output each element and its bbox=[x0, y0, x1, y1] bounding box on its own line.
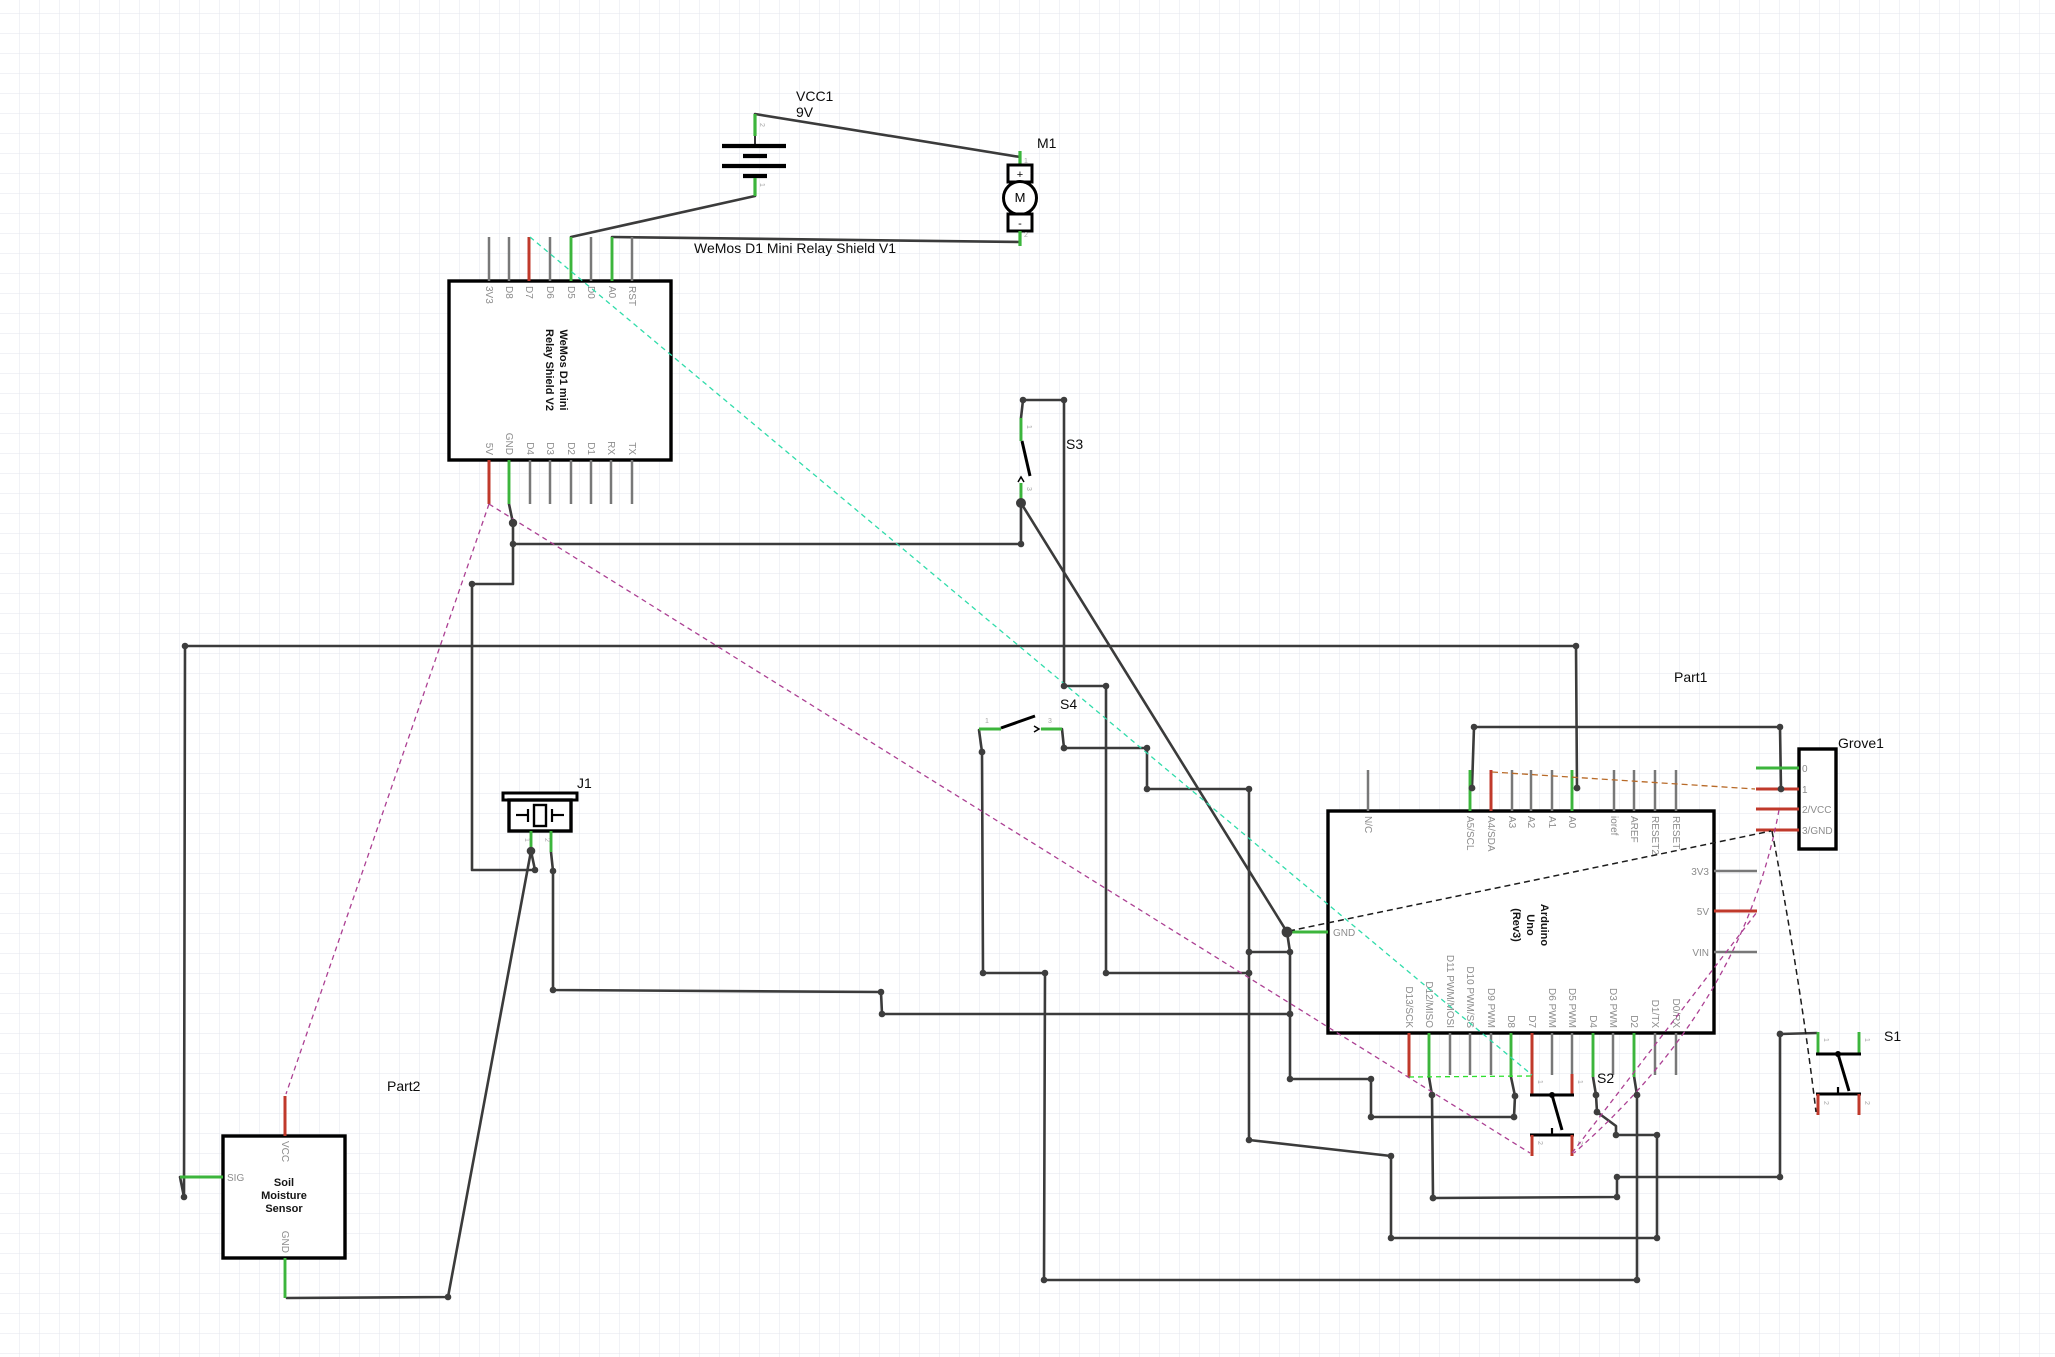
relay pin D2 bbox=[570, 460, 573, 504]
S2 pin 2a bbox=[1531, 1135, 1534, 1156]
svg-text:D3: D3 bbox=[544, 442, 555, 455]
Arduino title bbox=[1510, 904, 1550, 946]
svg-text:D3 PWM: D3 PWM bbox=[1607, 988, 1618, 1028]
S4 lever bbox=[1001, 716, 1035, 728]
junction corner 1147,748 bbox=[1144, 745, 1151, 752]
svg-text:A0: A0 bbox=[606, 286, 617, 299]
ratsnest green Arduino D13 to Arduino D7 bbox=[1409, 1076, 1532, 1077]
S3 pin 3 bbox=[1020, 483, 1023, 499]
svg-text:1: 1 bbox=[1802, 785, 1808, 796]
svg-text:1: 1 bbox=[985, 718, 989, 725]
ratsnest black Grove 3/GND to S1 pin2 bbox=[1772, 831, 1816, 1112]
svg-text:RESET2: RESET2 bbox=[1649, 816, 1660, 855]
switch S4 bbox=[979, 696, 1077, 732]
Arduino pin VIN bbox=[1714, 951, 1757, 954]
junction D8 bend bbox=[1512, 1093, 1519, 1100]
soil pin VCC bbox=[284, 1096, 287, 1136]
junction node 1249,952 bbox=[1246, 949, 1253, 956]
Arduino pin D2 bbox=[1633, 1033, 1636, 1077]
relay pin A0 bbox=[611, 237, 614, 281]
junction S3 pin3 node bbox=[1016, 498, 1026, 508]
wire junction to J1 pin1 bbox=[472, 544, 535, 870]
junction A5 wire corner bbox=[1471, 724, 1478, 731]
junction wire corner 472,584 bbox=[469, 581, 476, 588]
Arduino pin A5/SCL bbox=[1469, 770, 1472, 811]
svg-text:2: 2 bbox=[1863, 1101, 1870, 1105]
Arduino pin D3 bbox=[1612, 1033, 1615, 1075]
svg-text:Moisture: Moisture bbox=[261, 1190, 307, 1202]
Arduino pin D5 bbox=[1571, 1033, 1574, 1075]
ratsnest group bbox=[286, 237, 1816, 1153]
ratsnest cyan relay D7 to Arduino D7 bbox=[530, 237, 1532, 1075]
svg-text:S4: S4 bbox=[1060, 696, 1077, 712]
S1 pin 2b bbox=[1858, 1094, 1861, 1115]
relay pin D4 bbox=[529, 460, 532, 504]
S1 pin 2a bbox=[1817, 1094, 1820, 1115]
svg-text:Soil: Soil bbox=[274, 1177, 294, 1189]
svg-text:Grove1: Grove1 bbox=[1838, 735, 1884, 751]
junction J1 pin1 bbox=[527, 847, 536, 856]
junction corner 1290,1079 bbox=[1287, 1076, 1294, 1083]
relay pin D8 bbox=[508, 237, 511, 281]
soil pin GND bbox=[284, 1258, 287, 1298]
svg-text:TX: TX bbox=[626, 442, 637, 455]
ratsnest magenta S2 pin2b to Arduino 5V bbox=[1572, 912, 1757, 1153]
Arduino pin D10 bbox=[1469, 1033, 1472, 1075]
svg-text:M1: M1 bbox=[1037, 135, 1057, 151]
S2 pin 1b bbox=[1571, 1074, 1574, 1095]
svg-text:SIG: SIG bbox=[227, 1173, 244, 1184]
wire soil SIG to Arduino A0 bbox=[185, 646, 1577, 788]
junction A5 wire end bbox=[1469, 785, 1476, 792]
wires group bbox=[180, 114, 1817, 1298]
junction Grove wire corner bbox=[1777, 724, 1784, 731]
svg-text:S3: S3 bbox=[1066, 436, 1083, 452]
S4 pin 3 bbox=[1041, 728, 1062, 731]
svg-text:D8: D8 bbox=[1505, 1015, 1516, 1028]
junction corner 1147,789 bbox=[1144, 786, 1151, 793]
S4 contact arrow bbox=[1034, 726, 1039, 732]
junction soil GND corner bbox=[445, 1294, 452, 1301]
svg-text:A5/SCL: A5/SCL bbox=[1464, 816, 1475, 851]
relay title bbox=[543, 329, 569, 411]
svg-text:3/GND: 3/GND bbox=[1802, 826, 1833, 837]
Arduino pin D11 bbox=[1449, 1033, 1452, 1075]
J1 right lead bbox=[552, 814, 564, 816]
battery pin 1 (negative) bbox=[753, 178, 756, 196]
svg-text:5V: 5V bbox=[1697, 907, 1710, 918]
Arduino body bbox=[1328, 811, 1714, 1033]
relay pin D3 bbox=[549, 460, 552, 504]
svg-text:2: 2 bbox=[758, 123, 765, 127]
J1 pin 1 bbox=[530, 831, 533, 851]
Grove pin 2/VCC bbox=[1756, 808, 1799, 811]
Arduino pin A2 bbox=[1530, 770, 1533, 811]
J1 left plate bbox=[527, 809, 529, 822]
soil pin SIG bbox=[180, 1176, 223, 1179]
S2 pin 2b bbox=[1571, 1135, 1574, 1156]
S1 lever bbox=[1838, 1054, 1849, 1091]
Arduino pin 5V bbox=[1714, 910, 1757, 913]
battery VCC1 bbox=[722, 88, 834, 196]
junction D2 bend bbox=[1634, 1092, 1641, 1099]
relay pin GND bbox=[508, 460, 511, 504]
M1 circle bbox=[1004, 182, 1037, 215]
svg-text:D6 PWM: D6 PWM bbox=[1546, 988, 1557, 1028]
wire S3 pin3 to Arduino GND diagonal bbox=[1021, 503, 1287, 932]
svg-text:ioref: ioref bbox=[1608, 816, 1619, 836]
svg-text:D1: D1 bbox=[585, 442, 596, 455]
S2 lever pivot dot bbox=[1549, 1092, 1555, 1098]
junction corner 1616,1135 bbox=[1613, 1132, 1620, 1139]
Grove body bbox=[1799, 749, 1836, 849]
relay pin D5 bbox=[570, 237, 573, 281]
junction wire corner 535,870 bbox=[532, 867, 539, 874]
junction corner 1249,789 bbox=[1246, 786, 1253, 793]
junction corner 983,973 bbox=[980, 970, 987, 977]
svg-text:Uno: Uno bbox=[1524, 914, 1536, 936]
wire battery+ to M1 pin1 bbox=[755, 114, 1020, 157]
S3 lever bbox=[1022, 441, 1030, 476]
relay pin 3V3 bbox=[488, 237, 491, 281]
junction D4 bend b bbox=[1593, 1092, 1600, 1099]
Arduino pin D1/TX bbox=[1654, 1033, 1657, 1075]
svg-text:VCC: VCC bbox=[279, 1141, 290, 1162]
junction S4 pin3 bend bbox=[1061, 745, 1068, 752]
wire S4 pin1 to Arduino D2 bbox=[979, 730, 1637, 1280]
S1 pin 1a bbox=[1817, 1032, 1820, 1054]
S1 contact tick bbox=[1837, 1087, 1839, 1094]
svg-text:D5 PWM: D5 PWM bbox=[1566, 988, 1577, 1028]
wire soil SIG riser bbox=[180, 646, 185, 1197]
svg-text:GND: GND bbox=[279, 1231, 290, 1253]
svg-text:3V3: 3V3 bbox=[483, 286, 494, 304]
junction Grove pin1 wire end bbox=[1778, 786, 1785, 793]
junction corner 1290,952 bbox=[1287, 949, 1294, 956]
Arduino pin ioref bbox=[1613, 770, 1616, 811]
svg-text:GND: GND bbox=[1333, 928, 1355, 939]
svg-text:RX: RX bbox=[605, 441, 616, 455]
relay pin D0 bbox=[590, 237, 593, 281]
ratsnest black Arduino GND to Grove 3/GND bbox=[1289, 831, 1771, 931]
svg-text:1: 1 bbox=[523, 838, 530, 842]
wire J1 pin2 to GND bus bbox=[551, 852, 1290, 1014]
Arduino pin D4 bbox=[1592, 1033, 1595, 1077]
Arduino pin D12/MISO bbox=[1428, 1033, 1431, 1077]
M1 pin 1 bbox=[1018, 151, 1021, 166]
Arduino pin 3V3 bbox=[1714, 870, 1757, 873]
junction soil SIG riser top bbox=[182, 643, 189, 650]
junction corner 1657,1238 bbox=[1654, 1235, 1661, 1242]
relay pin D1 bbox=[590, 460, 593, 504]
J1 crystal box bbox=[534, 805, 546, 826]
junction corner 1637,1280 bbox=[1634, 1277, 1641, 1284]
Arduino pin D0/RX bbox=[1675, 1033, 1678, 1075]
svg-text:2/VCC: 2/VCC bbox=[1802, 805, 1831, 816]
piezo J1 bbox=[503, 775, 592, 852]
relay pin D6 bbox=[549, 237, 552, 281]
soil sensor body bbox=[223, 1136, 345, 1258]
junction D8 wire end bbox=[1511, 1114, 1518, 1121]
junction node 1249,973 bbox=[1246, 970, 1253, 977]
battery plate long 1 bbox=[722, 144, 786, 148]
relay shield body bbox=[449, 281, 671, 460]
junction corner 553,990 bbox=[550, 987, 557, 994]
junction J1 pin2 bend bbox=[550, 868, 557, 875]
M1 minus box bbox=[1008, 214, 1032, 231]
wire junction to S3 pin3 bbox=[513, 503, 1021, 544]
svg-text:D6: D6 bbox=[544, 286, 555, 299]
relay pin D7 bbox=[528, 237, 531, 281]
junction corner 1045,973 bbox=[1042, 970, 1049, 977]
motor M1 bbox=[1004, 135, 1057, 246]
Arduino pin D6 bbox=[1551, 1033, 1554, 1075]
Arduino pin D13/SCK bbox=[1408, 1033, 1411, 1077]
relay pin 5V bbox=[488, 460, 491, 504]
svg-text:D7: D7 bbox=[1526, 1015, 1537, 1028]
junction corner 1044,1280 bbox=[1041, 1277, 1048, 1284]
Arduino pin AREF bbox=[1633, 770, 1636, 811]
svg-text:D5: D5 bbox=[565, 286, 576, 299]
Arduino pin RESET2 bbox=[1654, 770, 1657, 811]
svg-text:-: - bbox=[1018, 218, 1022, 230]
Grove pin 1 bbox=[1756, 788, 1799, 791]
svg-text:A2: A2 bbox=[1525, 816, 1536, 829]
pushbutton S2 bbox=[1530, 1070, 1614, 1156]
junction Arduino GND node bbox=[1282, 927, 1293, 938]
junction soil SIG riser bottom bbox=[181, 1194, 188, 1201]
wire J1 pin1 to soil GND bbox=[287, 851, 531, 1298]
svg-text:AREF: AREF bbox=[1628, 816, 1639, 843]
Grove1 connector bbox=[1756, 735, 1884, 849]
Arduino pin A3 bbox=[1511, 770, 1514, 811]
relay pin RST bbox=[631, 237, 634, 281]
junction relay GND bend bbox=[509, 519, 517, 527]
svg-text:A0: A0 bbox=[1566, 816, 1577, 829]
J1 pin 2 bbox=[550, 831, 553, 852]
svg-text:5V: 5V bbox=[483, 443, 494, 456]
svg-text:A3: A3 bbox=[1506, 816, 1517, 829]
svg-text:Arduino: Arduino bbox=[1538, 904, 1550, 946]
battery plate short 2 bbox=[743, 174, 767, 178]
junction corner 1780,1177 bbox=[1777, 1174, 1784, 1181]
svg-text:D0: D0 bbox=[585, 286, 596, 299]
svg-text:3: 3 bbox=[1025, 487, 1032, 491]
junction S3 top corner a bbox=[1020, 397, 1027, 404]
svg-text:D7: D7 bbox=[523, 286, 534, 299]
junction corner 1657,1135 bbox=[1654, 1132, 1661, 1139]
svg-text:M: M bbox=[1015, 190, 1026, 205]
J1 left lead bbox=[516, 814, 528, 816]
ratsnest magenta relay 5V to soil VCC bbox=[286, 504, 489, 1094]
svg-text:1: 1 bbox=[758, 183, 765, 187]
wire S4 pin3 to net junction bbox=[1062, 729, 1249, 973]
junction corner 1249,1140 bbox=[1246, 1137, 1253, 1144]
junction S3 top corner b bbox=[1061, 397, 1068, 404]
junction S4 pin1 bend bbox=[979, 749, 986, 756]
Arduino pin GND bbox=[1288, 931, 1328, 934]
J1 top cap bbox=[503, 793, 577, 800]
svg-text:1: 1 bbox=[1024, 158, 1028, 165]
svg-text:D4: D4 bbox=[524, 442, 535, 455]
svg-text:N/C: N/C bbox=[1362, 816, 1373, 833]
pushbutton S1 bbox=[1816, 1028, 1901, 1115]
svg-text:D8: D8 bbox=[503, 286, 514, 299]
junction corner 1433,1198 bbox=[1430, 1195, 1437, 1202]
S2 top bar bbox=[1530, 1094, 1574, 1097]
S1 pin 1b bbox=[1858, 1032, 1861, 1054]
svg-text:D1/TX: D1/TX bbox=[1649, 1000, 1660, 1029]
svg-text:3V3: 3V3 bbox=[1691, 867, 1709, 878]
battery plate short 1 bbox=[743, 154, 767, 158]
ratsnest magenta relay 5V to S2 pin2 bbox=[489, 504, 1530, 1153]
battery pin 2 (positive) bbox=[753, 114, 756, 136]
wire relay A0 to M1 pin2 bbox=[612, 237, 1020, 242]
wire relay GND down to junction bbox=[509, 504, 513, 544]
junction A0 wire end bbox=[1574, 785, 1581, 792]
J1 right plate bbox=[551, 809, 553, 822]
junction corner 1617,1197 bbox=[1614, 1194, 1621, 1201]
S3 pin 1 bbox=[1020, 418, 1023, 441]
svg-text:Part2: Part2 bbox=[387, 1078, 421, 1094]
svg-text:J1: J1 bbox=[577, 775, 592, 791]
svg-text:2: 2 bbox=[1822, 1101, 1829, 1105]
svg-text:9V: 9V bbox=[796, 104, 814, 120]
svg-text:+: + bbox=[1017, 169, 1023, 181]
Arduino pin A1 bbox=[1551, 770, 1554, 811]
junction corner 1371,1117 bbox=[1368, 1114, 1375, 1121]
junction S1 wire corner bbox=[1777, 1031, 1784, 1038]
wire S3 pin1 to net junction bbox=[1021, 400, 1249, 973]
M1 plus box bbox=[1008, 165, 1032, 182]
svg-text:GND: GND bbox=[503, 433, 514, 455]
svg-text:2: 2 bbox=[1536, 1141, 1543, 1145]
junction S3 wire corner 1021,544 bbox=[1018, 541, 1025, 548]
svg-text:RST: RST bbox=[626, 286, 637, 306]
Arduino pin D7 bbox=[1531, 1033, 1534, 1075]
svg-text:D2: D2 bbox=[565, 442, 576, 455]
svg-text:(Rev3): (Rev3) bbox=[1510, 908, 1522, 942]
svg-text:3: 3 bbox=[1048, 718, 1052, 725]
relay pin RX bbox=[610, 460, 613, 504]
relay pin TX bbox=[631, 460, 634, 504]
svg-text:Sensor: Sensor bbox=[265, 1203, 303, 1215]
svg-text:WeMos D1 mini: WeMos D1 mini bbox=[557, 329, 569, 410]
svg-text:VIN: VIN bbox=[1692, 948, 1709, 959]
Arduino pin A4/SDA bbox=[1490, 770, 1493, 811]
M1 pin 2 bbox=[1018, 231, 1021, 246]
wire GND bus to Arduino D4 bbox=[1249, 973, 1657, 1238]
junction D4 bend a bbox=[1594, 1109, 1601, 1116]
S2 pin 1a bbox=[1531, 1074, 1534, 1095]
wire S1 pin1 to Arduino D12/MISO bbox=[1429, 1033, 1817, 1198]
junction corner 1371,1079 bbox=[1368, 1076, 1375, 1083]
junction D12 bend bbox=[1429, 1092, 1436, 1099]
svg-text:2: 2 bbox=[543, 838, 550, 842]
junction corner 1106,973 bbox=[1103, 970, 1110, 977]
junction A0 wire corner bbox=[1573, 643, 1580, 650]
svg-text:RESET: RESET bbox=[1670, 816, 1681, 849]
svg-text:Part1: Part1 bbox=[1674, 669, 1708, 685]
S1 bottom bar bbox=[1816, 1093, 1861, 1096]
wire GND bus to Arduino D8 bbox=[1290, 1014, 1515, 1117]
svg-text:D4: D4 bbox=[1587, 1015, 1598, 1028]
svg-text:D13/SCK: D13/SCK bbox=[1403, 986, 1414, 1028]
Arduino pin RESET bbox=[1675, 770, 1678, 811]
S2 lever bbox=[1552, 1095, 1562, 1130]
svg-text:A1: A1 bbox=[1546, 816, 1557, 829]
svg-text:D11 PWM/MOSI: D11 PWM/MOSI bbox=[1444, 955, 1455, 1028]
svg-text:2: 2 bbox=[1024, 232, 1028, 239]
wire battery- to relay D5 bbox=[571, 196, 755, 237]
battery plate long 2 bbox=[722, 164, 786, 168]
S3 contact arrow bbox=[1018, 477, 1024, 482]
svg-text:1: 1 bbox=[1863, 1038, 1870, 1042]
svg-text:A4/SDA: A4/SDA bbox=[1485, 816, 1496, 852]
junction corner 1391,1238 bbox=[1388, 1235, 1395, 1242]
S4 pin 1 bbox=[979, 728, 1001, 731]
svg-text:1: 1 bbox=[1822, 1038, 1829, 1042]
Arduino pin A0 bbox=[1571, 770, 1574, 811]
svg-text:WeMos D1 Mini Relay Shield V1: WeMos D1 Mini Relay Shield V1 bbox=[694, 240, 896, 256]
Soil Moisture Sensor bbox=[180, 1096, 345, 1298]
svg-text:S1: S1 bbox=[1884, 1028, 1901, 1044]
Arduino pin N/C bbox=[1367, 770, 1370, 811]
Grove pin 3/GND bbox=[1756, 829, 1799, 832]
svg-text:VCC1: VCC1 bbox=[796, 88, 834, 104]
junction relay GND tee bbox=[510, 541, 517, 548]
S2 bottom bar bbox=[1530, 1134, 1574, 1137]
junction corner 882,1014 bbox=[879, 1011, 886, 1018]
junction corner 1391,1156 bbox=[1388, 1153, 1395, 1160]
svg-text:1: 1 bbox=[1536, 1080, 1543, 1084]
svg-text:0: 0 bbox=[1802, 764, 1808, 775]
switch S3 bbox=[1018, 418, 1083, 499]
wire Arduino A5/SCL to Grove pin1 bbox=[1472, 727, 1781, 789]
svg-text:Relay Shield V2: Relay Shield V2 bbox=[543, 329, 555, 411]
svg-text:D2: D2 bbox=[1628, 1015, 1639, 1028]
junction corner 1617,1177 bbox=[1614, 1174, 1621, 1181]
ratsnest orange Arduino A4/SDA to Grove pin1 bbox=[1492, 772, 1755, 789]
junction corner 881,992 bbox=[878, 989, 885, 996]
ratsnest magenta Grove 2/VCC to S2 pin2b bbox=[1574, 810, 1779, 1153]
Grove pin 0 bbox=[1756, 767, 1799, 770]
junction node 1290,1014 bbox=[1287, 1011, 1294, 1018]
J1 body bbox=[509, 800, 571, 831]
Arduino Uno (Rev3) bbox=[1288, 770, 1757, 1077]
WeMos D1 mini Relay Shield V2 bbox=[449, 237, 671, 504]
svg-text:S2: S2 bbox=[1597, 1070, 1614, 1086]
junction corner 1106,686 bbox=[1103, 683, 1110, 690]
svg-text:1: 1 bbox=[1576, 1080, 1583, 1084]
S2 contact tick bbox=[1551, 1128, 1553, 1135]
wire junction to Arduino GND bbox=[1249, 932, 1290, 952]
S1 lever pivot dot bbox=[1835, 1051, 1841, 1057]
S1 top bar bbox=[1816, 1053, 1861, 1056]
Arduino pin D8 bbox=[1510, 1033, 1513, 1077]
junction corner 1064,686 bbox=[1061, 683, 1068, 690]
svg-text:1: 1 bbox=[1025, 425, 1032, 429]
Arduino pin D9 bbox=[1490, 1033, 1493, 1075]
svg-text:D9 PWM: D9 PWM bbox=[1485, 988, 1496, 1028]
